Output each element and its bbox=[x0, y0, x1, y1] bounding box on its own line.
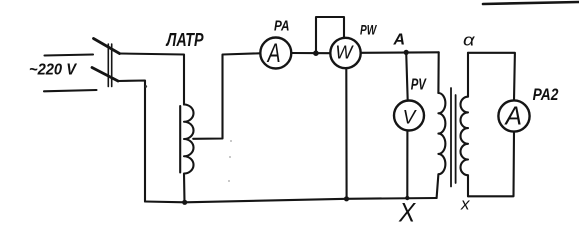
svg-text:ЛАТР: ЛАТР bbox=[165, 30, 204, 50]
svg-text:x: x bbox=[460, 195, 470, 214]
svg-text:A: A bbox=[266, 38, 281, 68]
svg-text:PW: PW bbox=[360, 22, 378, 38]
svg-text:α: α bbox=[463, 30, 476, 49]
svg-text:W: W bbox=[335, 42, 354, 62]
svg-text:PA: PA bbox=[274, 17, 290, 34]
svg-text:A: A bbox=[504, 102, 522, 131]
svg-text:PV: PV bbox=[411, 77, 427, 94]
svg-text:PA2: PA2 bbox=[533, 85, 559, 104]
svg-text:X: X bbox=[398, 198, 416, 227]
svg-text:A: A bbox=[393, 32, 406, 49]
svg-text:~220 V: ~220 V bbox=[29, 62, 77, 79]
